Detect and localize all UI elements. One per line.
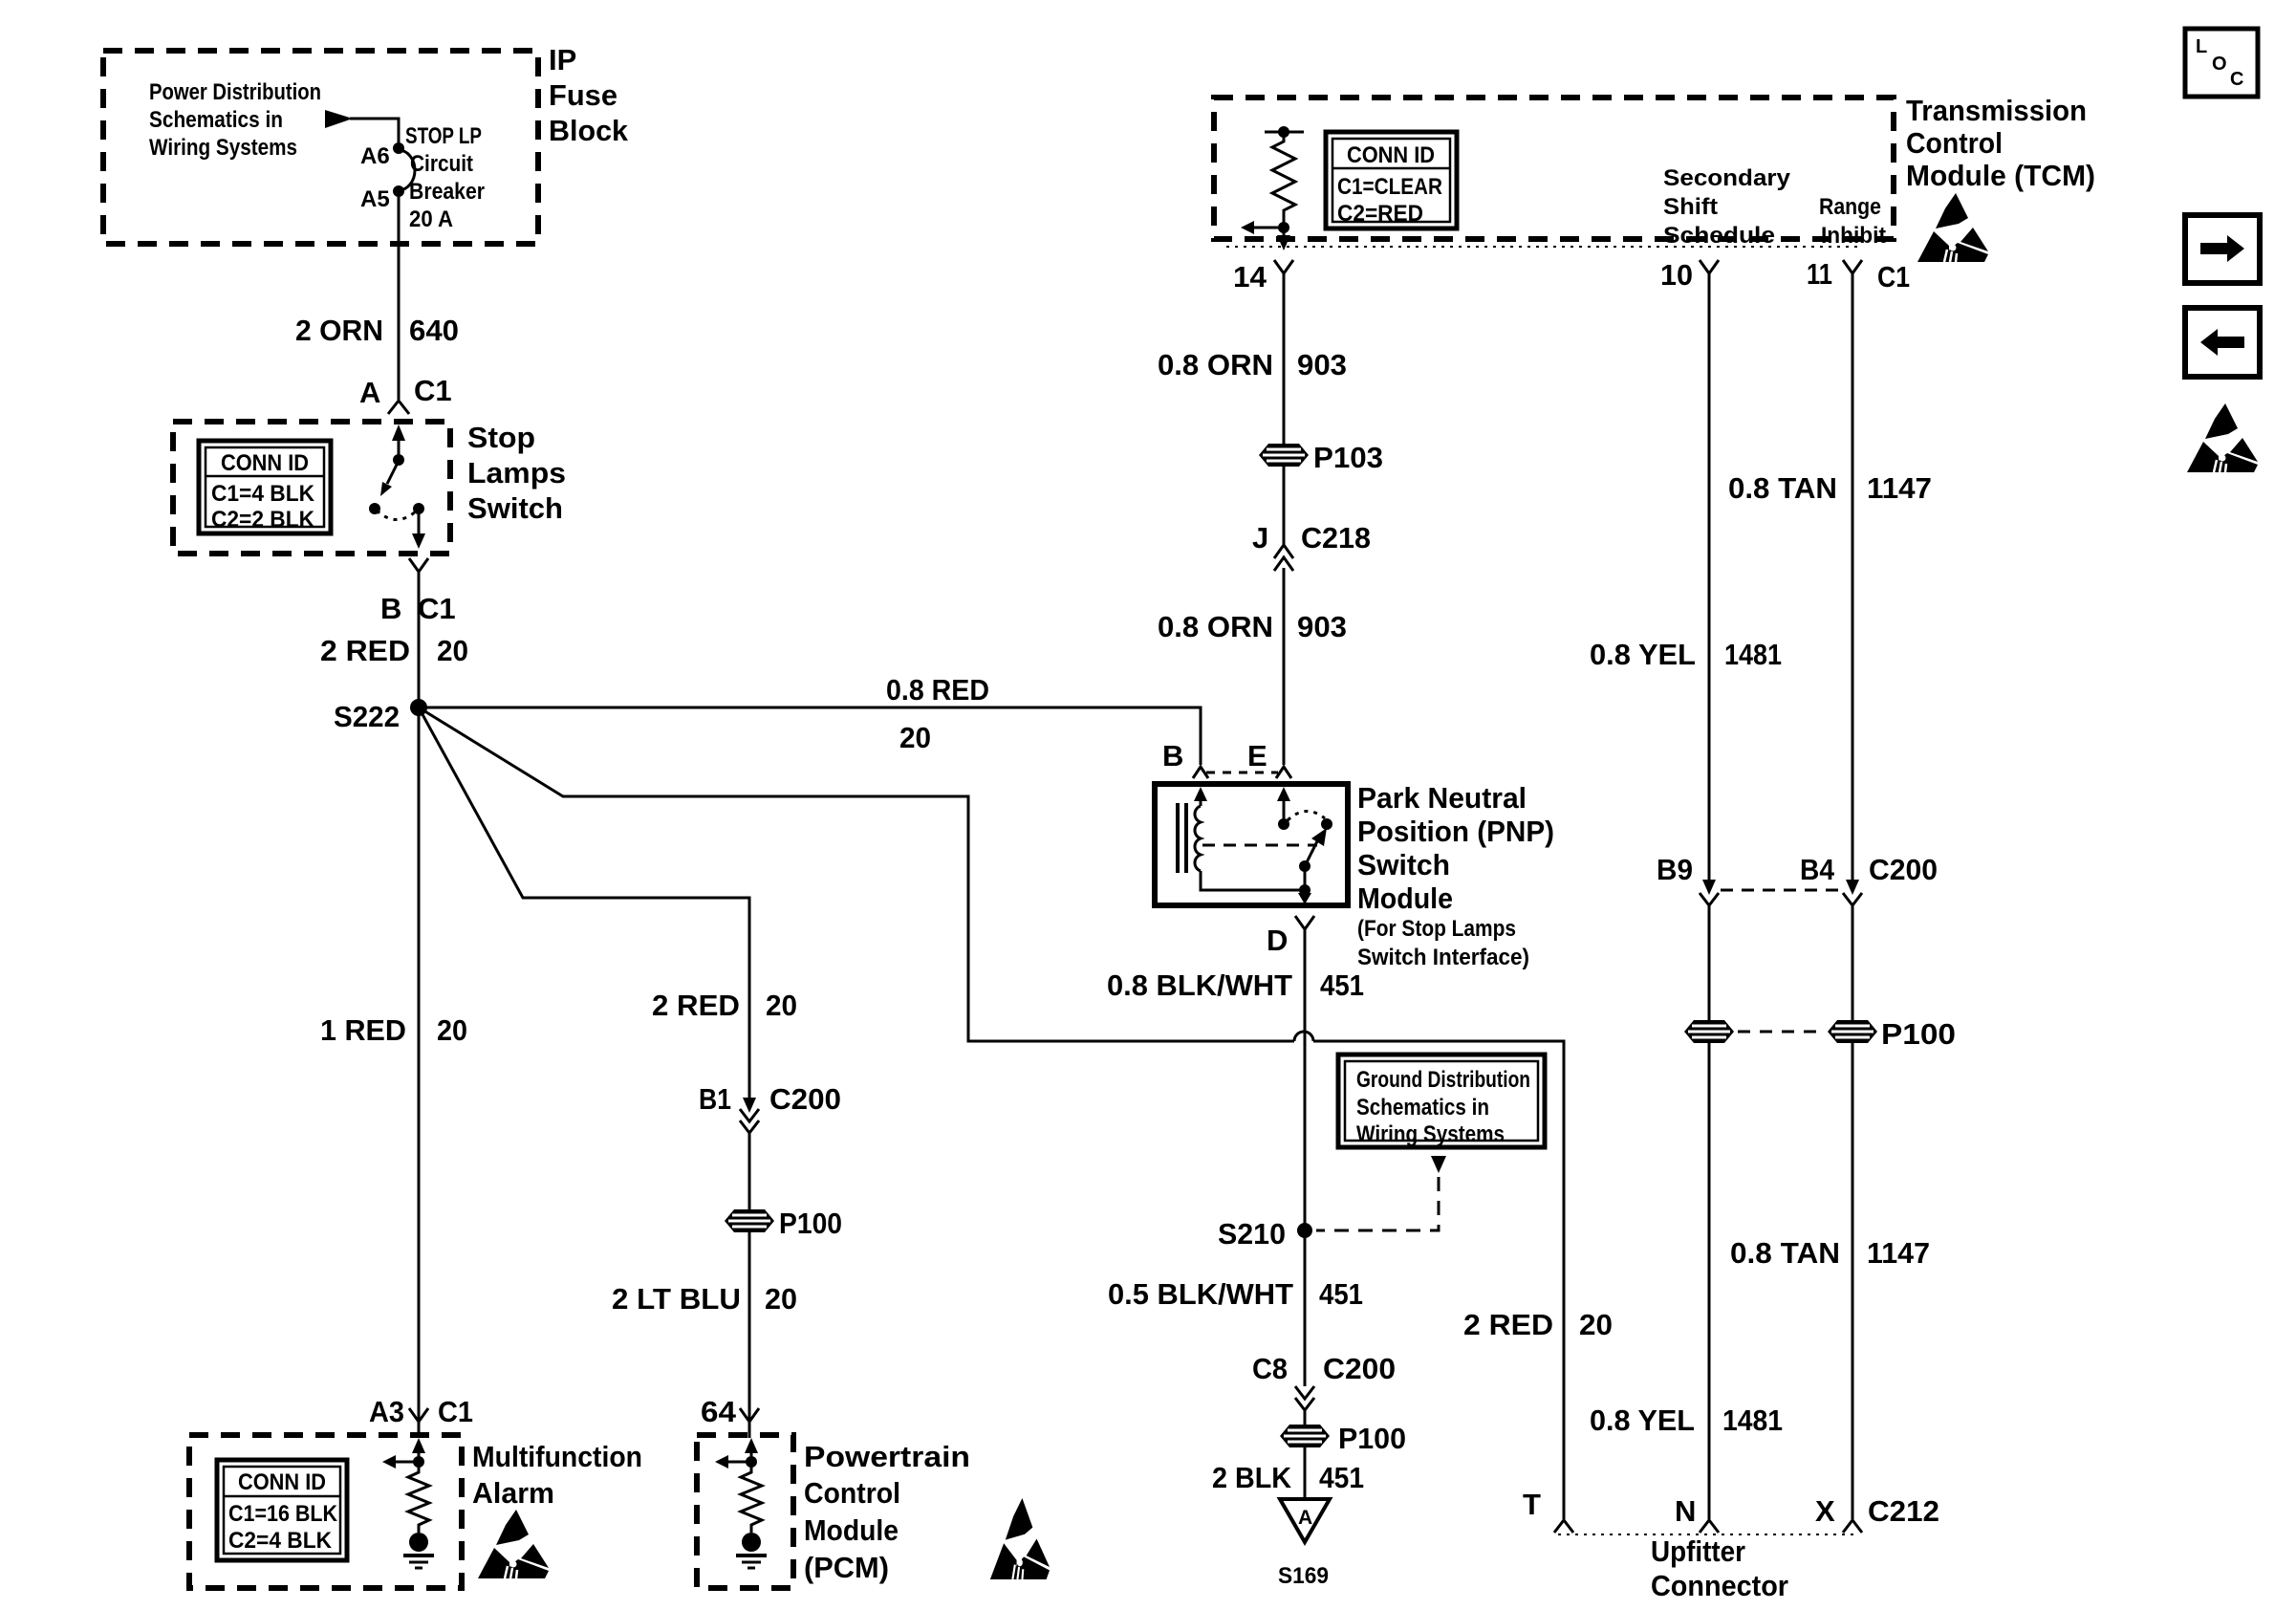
connector B1/C200 arrow and chevrons [743,1098,756,1113]
wire P100 to ground [1304,1447,1307,1499]
dashed line between P100 pair [1738,1031,1824,1033]
Multifunction Alarm dashed box [189,1435,462,1588]
svg-text:IP: IP [549,43,576,76]
CONN ID table (TCM) [1326,132,1457,228]
svg-text:Power Distribution: Power Distribution [149,79,321,105]
svg-text:A6: A6 [360,143,390,169]
PNP coil arrow to pin B [1194,787,1207,801]
circuit breaker arc [399,150,415,190]
svg-text:B9: B9 [1657,853,1693,886]
dashed leader to S210 [1316,1177,1439,1230]
svg-text:P103: P103 [1313,441,1383,474]
wire P100 to PCM [748,1232,751,1422]
svg-text:A3: A3 [369,1395,404,1428]
svg-text:Upfitter: Upfitter [1651,1534,1745,1568]
svg-text:STOP LP: STOP LP [405,123,482,149]
wire P100 down to N [1708,1043,1711,1519]
svg-text:C200: C200 [769,1082,841,1116]
wire A5 to connector A/C1 [398,191,401,400]
svg-text:C2=RED: C2=RED [1337,201,1423,227]
svg-text:Schedule: Schedule [1663,223,1775,249]
TCM internal resistor [1265,131,1304,134]
svg-text:0.8 YEL: 0.8 YEL [1590,1403,1695,1437]
PNP switch common contact [1278,818,1289,830]
svg-text:C2=2 BLK: C2=2 BLK [211,507,315,533]
svg-text:1481: 1481 [1722,1403,1783,1437]
connector fork A/C1 [388,401,409,414]
svg-text:A: A [359,376,380,409]
svg-text:C: C [2230,69,2243,90]
PNP arrow to pin E [1277,787,1290,801]
pin T fork [1554,1520,1573,1533]
alarm internal load [382,1438,434,1568]
svg-text:1481: 1481 [1724,638,1782,671]
PNP junction dot [1299,884,1310,896]
PCM dashed box [697,1435,793,1588]
pin 10 fork [1700,260,1719,273]
svg-text:Module: Module [1357,881,1453,915]
pin 11 fork [1843,260,1862,273]
svg-text:Connector: Connector [1651,1569,1788,1602]
svg-text:T: T [1523,1488,1541,1521]
svg-text:0.8 TAN: 0.8 TAN [1730,1236,1840,1270]
svg-text:C212: C212 [1868,1494,1939,1528]
svg-text:S169: S169 [1278,1563,1329,1589]
svg-text:C200: C200 [1323,1352,1396,1385]
wire pin 10 down (secondary shift schedule) [1708,273,1711,883]
PNP right contact [1321,818,1332,830]
svg-text:Module: Module [804,1513,899,1547]
svg-text:Powertrain: Powertrain [804,1440,970,1473]
svg-text:C1: C1 [1877,260,1910,294]
connector C8/C200 double chevron [1295,1386,1314,1399]
svg-text:X: X [1815,1494,1835,1528]
svg-text:0.5 BLK/WHT: 0.5 BLK/WHT [1108,1277,1293,1311]
svg-text:(For Stop Lamps: (For Stop Lamps [1357,916,1516,942]
svg-text:0.8 BLK/WHT: 0.8 BLK/WHT [1107,968,1292,1002]
svg-text:Block: Block [549,114,629,147]
svg-text:L: L [2196,36,2207,57]
connector fork A3/C1 [409,1408,428,1422]
svg-text:C218: C218 [1301,521,1371,555]
svg-text:20 A: 20 A [409,207,453,232]
arrow into switch from A [392,424,405,441]
wire branch to PCM [419,707,749,1099]
CONN ID table (alarm) [217,1460,347,1560]
svg-text:C1: C1 [418,592,456,625]
svg-text:S222: S222 [334,700,400,733]
wire branch to T drop (2 RED) [419,707,1294,1041]
svg-text:Breaker: Breaker [409,179,485,205]
svg-text:S210: S210 [1218,1217,1286,1251]
right arrow icon [2185,215,2260,283]
wire continues to T drop [1313,1041,1564,1519]
svg-text:CONN ID: CONN ID [1347,142,1435,168]
svg-text:903: 903 [1297,610,1347,643]
svg-text:Position (PNP): Position (PNP) [1357,815,1554,848]
wire P100 down to X [1852,1043,1854,1519]
svg-text:Shift: Shift [1663,194,1718,220]
svg-text:D: D [1267,924,1288,957]
left arrow icon [2185,308,2260,377]
wire pin 11 down (range inhibit) [1852,273,1854,883]
pass-through P100 (right of pair) [1828,1020,1877,1043]
dashed line between pins B and E [1206,772,1278,774]
svg-text:Schematics in: Schematics in [1356,1095,1489,1120]
svg-text:451: 451 [1319,1461,1364,1494]
svg-text:N: N [1675,1494,1696,1528]
connector fork 64 [740,1408,759,1422]
svg-text:2 ORN: 2 ORN [295,314,383,347]
svg-text:20: 20 [899,721,931,754]
svg-text:Lamps: Lamps [467,456,566,490]
ESD at Multifunction Alarm [478,1510,549,1578]
svg-text:14: 14 [1233,260,1267,294]
ground triangle S169 [1280,1499,1330,1542]
svg-text:1147: 1147 [1867,471,1932,505]
wire B down to S222 [418,572,421,707]
svg-text:1147: 1147 [1867,1236,1930,1270]
Transmission Control Module dashed box [1214,98,1894,239]
wire P103 to J/C218 [1283,467,1286,545]
svg-text:A5: A5 [360,186,390,212]
terminal A5 [393,185,404,197]
svg-text:B4: B4 [1800,853,1835,886]
svg-text:Wiring Systems: Wiring Systems [1356,1121,1505,1147]
splice S210 [1297,1223,1312,1238]
dashed travel arc [377,511,417,520]
PNP mechanical link dashes [1202,844,1317,847]
svg-text:C1=16 BLK: C1=16 BLK [228,1501,338,1527]
wire hop over BLK/WHT wire [1294,1032,1313,1041]
PNP solenoid coil [1195,806,1201,871]
splice S222 [410,699,427,716]
svg-text:Module (TCM): Module (TCM) [1906,159,2095,192]
svg-text:20: 20 [437,634,468,667]
svg-text:Fuse: Fuse [549,78,617,112]
svg-text:J: J [1252,521,1268,555]
svg-text:Range: Range [1819,194,1881,220]
svg-text:O: O [2212,54,2227,75]
pass-through P100 (PCM drop) [725,1209,774,1232]
svg-text:A: A [1298,1507,1312,1529]
svg-text:Inhibit: Inhibit [1821,223,1886,249]
svg-text:C8: C8 [1252,1352,1288,1385]
connector fork B/C1 [409,558,428,572]
svg-text:0.8 YEL: 0.8 YEL [1590,638,1696,671]
wire 0.8 RED from S222 to PNP pin B [419,707,1201,765]
pin B fork (PNP) [1193,767,1208,778]
svg-text:903: 903 [1297,348,1347,381]
svg-text:C1=4 BLK: C1=4 BLK [211,481,315,507]
svg-text:Circuit: Circuit [410,151,473,177]
svg-text:Secondary: Secondary [1663,165,1791,191]
svg-text:(PCM): (PCM) [804,1551,889,1584]
arrow from note to wire [325,110,353,128]
wire 1 RED from S222 down to Multifunction Alarm [418,707,421,1422]
svg-text:451: 451 [1320,968,1364,1002]
connector B4 arrow and fork [1846,880,1859,895]
svg-text:B1: B1 [699,1082,731,1116]
svg-text:CONN ID: CONN ID [238,1469,326,1495]
C212 connector dashed line [1558,1534,1858,1535]
svg-text:Alarm: Alarm [472,1476,554,1510]
switch lower-right contact [413,503,424,514]
pass-through P103 [1259,444,1309,467]
Ground Distribution box [1338,1055,1545,1147]
pin N fork [1700,1520,1719,1533]
switch top contact [393,454,404,466]
wire pin D down (0.8 BLK/WHT) [1304,929,1307,1230]
wire from right contact down with arrow [418,509,421,541]
svg-text:20: 20 [766,989,797,1022]
wire B9 down to P100 [1708,903,1711,1020]
svg-text:10: 10 [1660,258,1693,292]
svg-text:Stop: Stop [467,421,535,454]
svg-text:P100: P100 [779,1207,842,1240]
PNP coil core bars [1176,803,1180,873]
svg-text:11: 11 [1807,257,1832,291]
svg-text:1 RED: 1 RED [320,1013,406,1047]
ESD at TCM [1917,193,1988,262]
svg-text:2 RED: 2 RED [320,634,410,667]
pass-through P100 (ground drop) [1280,1425,1330,1447]
svg-text:0.8 ORN: 0.8 ORN [1158,610,1273,643]
Stop Lamps Switch dashed box [173,422,450,554]
PNP movable arm with arrowhead [1305,841,1317,866]
svg-text:E: E [1247,739,1267,772]
svg-text:P100: P100 [1881,1017,1956,1051]
svg-text:2 RED: 2 RED [652,989,740,1022]
svg-text:Switch Interface): Switch Interface) [1357,945,1529,970]
wire B1 to P100 [748,1131,751,1210]
LOC icon [2185,29,2258,97]
wire from arrow to breaker [350,119,399,148]
svg-text:0.8 ORN: 0.8 ORN [1158,348,1273,381]
PNP arrow down to pin D [1298,893,1311,904]
pin 14 fork [1274,260,1293,273]
PNP coil bottom wire to junction [1201,871,1304,890]
svg-text:640: 640 [409,314,459,347]
svg-text:Switch: Switch [467,491,563,525]
svg-text:2 RED: 2 RED [1463,1308,1553,1341]
svg-text:Multifunction: Multifunction [472,1440,642,1473]
Park Neutral Position Switch Module box [1155,784,1348,905]
ESD at PCM [990,1498,1050,1579]
svg-text:Switch: Switch [1357,848,1450,881]
svg-text:451: 451 [1319,1277,1363,1311]
pin E fork (PNP) [1276,767,1291,778]
svg-text:64: 64 [701,1395,737,1428]
wire B4 down to P100 [1852,903,1854,1020]
svg-text:C1=CLEAR: C1=CLEAR [1337,174,1442,200]
svg-text:2 LT BLU: 2 LT BLU [612,1282,741,1316]
connector J/C218 double chevron [1274,545,1293,558]
svg-text:Control: Control [1906,126,2003,160]
ESD standalone top right [2187,403,2258,472]
pointer triangle from Ground Distribution box [1431,1156,1446,1173]
svg-text:20: 20 [765,1282,797,1316]
svg-text:B: B [380,592,401,625]
svg-text:B: B [1162,739,1183,772]
dashed line between B9 and B4 [1721,889,1841,892]
svg-text:0.8 TAN: 0.8 TAN [1728,471,1837,505]
wire S210 down to C8 [1304,1230,1307,1386]
svg-text:0.8 RED: 0.8 RED [886,673,989,707]
CONN ID table (stop lamps switch) [199,441,331,533]
svg-text:P100: P100 [1338,1422,1406,1455]
PCM internal load [715,1438,767,1568]
svg-text:C1: C1 [414,374,452,407]
svg-text:C1: C1 [438,1395,473,1428]
svg-text:C2=4 BLK: C2=4 BLK [228,1528,333,1554]
switch lower-left contact [369,503,380,514]
pass-through P100 (left of pair) [1684,1020,1734,1043]
svg-text:Ground Distribution: Ground Distribution [1356,1067,1530,1093]
IP Fuse Block dashed box [103,51,538,244]
PNP dashed travel arc [1288,811,1325,820]
PNP arm pivot [1299,860,1310,872]
TCM pin connector dashed line [1226,246,1862,248]
svg-text:C200: C200 [1869,853,1938,886]
wire pin14 down to P103 [1283,273,1286,446]
wire C8 to P100 [1304,1408,1307,1425]
terminal A6 [393,142,404,154]
pin D fork [1295,916,1314,929]
svg-text:20: 20 [1579,1308,1613,1341]
svg-text:Park Neutral: Park Neutral [1357,781,1527,815]
connector B9 arrow and fork [1702,880,1716,895]
svg-text:Transmission: Transmission [1906,94,2087,127]
switch blade with arrowhead [387,461,399,484]
svg-text:CONN ID: CONN ID [221,450,309,476]
svg-text:20: 20 [437,1013,467,1047]
svg-text:2 BLK: 2 BLK [1212,1461,1292,1494]
svg-text:Wiring Systems: Wiring Systems [149,135,297,161]
wire J/C218 down to PNP pin E [1283,568,1286,765]
pin X fork [1843,1520,1862,1533]
svg-text:Schematics in: Schematics in [149,107,283,133]
svg-text:Control: Control [804,1476,900,1510]
